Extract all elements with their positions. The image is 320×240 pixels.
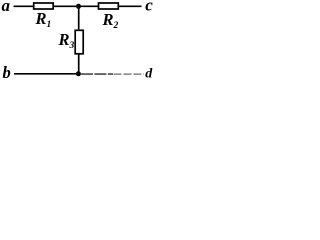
wire top junction to R3 [78, 6, 80, 30]
svg-text:1: 1 [47, 20, 52, 30]
node b [3, 63, 11, 82]
svg-text:c: c [145, 0, 153, 15]
wire R1 to R2 [53, 5, 98, 7]
wire R2 to c [118, 5, 141, 7]
junction dot bottom [76, 71, 81, 76]
svg-text:R: R [35, 9, 47, 28]
wire b to bottom junction [14, 73, 79, 75]
svg-text:3: 3 [69, 41, 75, 51]
resistor R3 [75, 30, 83, 54]
node d [145, 67, 153, 82]
svg-text:b: b [3, 63, 11, 82]
resistor R1 [34, 3, 54, 9]
svg-text:a: a [2, 0, 11, 15]
svg-text:d: d [145, 67, 153, 82]
svg-text:2: 2 [113, 21, 119, 31]
label R3 [58, 30, 75, 51]
node c [145, 0, 153, 15]
wire R3 to bottom junction [78, 54, 80, 74]
wire bottom junction to d (faded left part) [81, 73, 113, 75]
label R2 [102, 10, 119, 31]
label R1 [35, 9, 52, 30]
node a [2, 0, 11, 15]
svg-text:R: R [58, 30, 70, 49]
wire a to R1 [14, 5, 35, 7]
junction dot top [76, 4, 81, 9]
wire bottom junction to d (faded right part) [114, 73, 145, 75]
resistor R2 [99, 3, 119, 9]
svg-text:R: R [102, 10, 114, 29]
